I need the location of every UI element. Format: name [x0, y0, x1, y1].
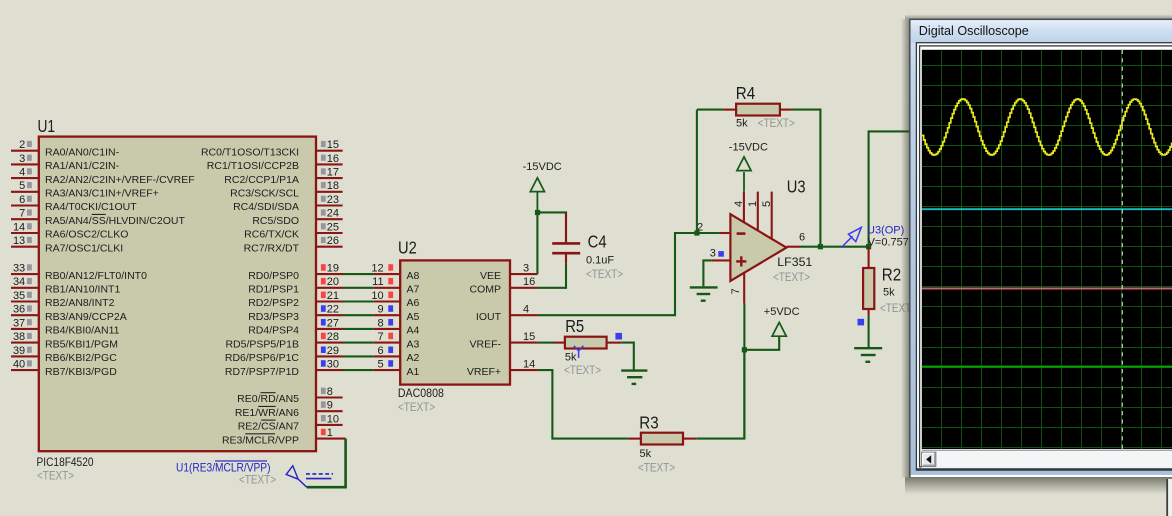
U3 pin 1 (top)	[747, 192, 759, 231]
U1 pin 20 (RD1/PSP1)	[248, 276, 343, 295]
svg-text:24: 24	[327, 208, 339, 220]
C4 property <TEXT>	[586, 267, 623, 281]
U1 pin 36 (RB3/AN9/CCP2A)	[11, 304, 127, 323]
svg-text:14: 14	[523, 358, 535, 370]
R5 value 5k	[565, 352, 577, 364]
R4 property <TEXT>	[758, 116, 795, 130]
svg-text:RC3/SCK/SCL: RC3/SCK/SCL	[230, 188, 299, 200]
svg-text:RB5/KBI1/PGM: RB5/KBI1/PGM	[45, 338, 118, 350]
wire R4 right to output	[792, 110, 821, 247]
svg-text:RA3/AN3/C1IN+/VREF+: RA3/AN3/C1IN+/VREF+	[45, 188, 159, 200]
node junction R2/scope	[866, 244, 871, 249]
background window edge bottom-right	[1167, 479, 1172, 516]
svg-text:U3(OP): U3(OP)	[867, 225, 904, 237]
U2 pin 4 (IOUT)	[476, 303, 538, 323]
svg-text:-15VDC: -15VDC	[523, 161, 562, 173]
svg-text:A6: A6	[407, 297, 420, 309]
U1 pin 23 (RC4/SDI/SDA)	[233, 194, 343, 213]
svg-text:RE3/MCLR/VPP: RE3/MCLR/VPP	[222, 434, 299, 446]
svg-text:9: 9	[327, 400, 333, 412]
U1 pin 16 (RC1/T1OSI/CCP2B)	[207, 153, 343, 172]
node junction at pin 2	[694, 230, 699, 235]
voltage probe mark at R5	[574, 346, 584, 358]
ground (op-amp pin 3)	[690, 287, 718, 300]
wire U1 pin 30 to U2 pin 5	[343, 369, 374, 371]
svg-text:5k: 5k	[883, 287, 895, 299]
svg-text:U2: U2	[398, 237, 417, 257]
svg-text:RB0/AN12/FLT0/INT0: RB0/AN12/FLT0/INT0	[45, 270, 147, 282]
window bottom white edge	[911, 475, 1172, 477]
svg-text:26: 26	[327, 235, 339, 247]
ground (R2)	[854, 348, 882, 362]
svg-text:33: 33	[13, 263, 25, 275]
ground (R5)	[621, 371, 647, 384]
svg-text:<TEXT>: <TEXT>	[398, 400, 435, 414]
U3 pin 7 (bottom)	[730, 273, 744, 304]
oscilloscope window frame	[910, 19, 1172, 476]
svg-text:RC7/RX/DT: RC7/RX/DT	[244, 242, 300, 254]
terminal property <TEXT>	[239, 472, 276, 486]
svg-text:11: 11	[372, 276, 383, 288]
svg-text:30: 30	[327, 359, 339, 371]
wire pin3 to ground	[703, 260, 711, 286]
U2 pin 12 stub	[371, 263, 400, 275]
svg-text:RD0/PSP0: RD0/PSP0	[248, 270, 299, 282]
svg-text:6: 6	[19, 194, 25, 206]
U3 pin 5 (top)	[761, 192, 773, 239]
window drop shadow top	[905, 14, 1172, 19]
resistor R5	[554, 337, 622, 349]
U1 pin 10 (RE2/CS/AN7)	[238, 413, 343, 432]
svg-text:5k: 5k	[565, 352, 577, 364]
svg-text:1: 1	[327, 427, 333, 439]
node junction feedback	[818, 244, 823, 249]
wire U1 pin 22 to U2 pin 9	[343, 314, 374, 316]
svg-text:5: 5	[377, 359, 383, 371]
resistor R2	[863, 268, 874, 316]
logic state square on R5 wire	[615, 333, 622, 340]
svg-text:RB7/KBI3/PGD: RB7/KBI3/PGD	[45, 366, 117, 378]
R4 designator	[736, 83, 756, 103]
U1 pin 33 (RB0/AN12/FLT0/INT0)	[11, 263, 147, 282]
svg-text:36: 36	[13, 304, 25, 316]
svg-text:23: 23	[327, 194, 339, 206]
svg-text:0.1uF: 0.1uF	[586, 255, 614, 267]
R3 value 5k	[640, 448, 652, 460]
svg-text:15: 15	[327, 139, 339, 151]
default terminal (RE3/MCLR/VPP net)	[286, 466, 333, 487]
svg-text:10: 10	[371, 290, 383, 302]
logic state square at pin 3	[718, 251, 724, 257]
wire U1 pin 20 to U2 pin 11	[343, 287, 374, 289]
svg-text:COMP: COMP	[470, 284, 502, 296]
svg-text:19: 19	[327, 263, 339, 275]
svg-text:U3: U3	[787, 176, 806, 196]
svg-text:12: 12	[371, 263, 383, 275]
svg-text:<TEXT>: <TEXT>	[773, 270, 810, 284]
U2 pin 16 (COMP)	[470, 276, 538, 296]
resistor R3	[628, 433, 697, 445]
wire U1 pin 19 to U2 pin 12	[343, 273, 374, 275]
U1 pin 18 (RC3/SCK/SCL)	[230, 180, 342, 199]
svg-text:RB1/AN10/INT1: RB1/AN10/INT1	[45, 284, 120, 296]
svg-text:34: 34	[13, 276, 25, 288]
svg-text:RA6/OSC2/CLKO: RA6/OSC2/CLKO	[45, 229, 128, 241]
svg-text:RB6/KBI2/PGC: RB6/KBI2/PGC	[45, 352, 117, 364]
svg-text:VEE: VEE	[480, 270, 501, 282]
voltage probe U3(OP)	[841, 227, 861, 247]
U2 pin 6 stub	[374, 345, 401, 357]
svg-text:RA1/AN1/C2IN-: RA1/AN1/C2IN-	[45, 160, 120, 172]
svg-text:RE1/WR/AN6: RE1/WR/AN6	[235, 407, 299, 419]
svg-text:27: 27	[327, 317, 339, 329]
scope channel A sine trace	[922, 99, 1172, 155]
U1 pin 21 (RD2/PSP2)	[248, 290, 343, 309]
svg-text:37: 37	[13, 317, 25, 329]
svg-text:RC4/SDI/SDA: RC4/SDI/SDA	[233, 201, 299, 213]
wire C4 bottom to COMP	[538, 264, 566, 288]
svg-text:16: 16	[327, 153, 339, 165]
U3 property <TEXT>	[773, 270, 810, 284]
op-amp U3 body	[730, 214, 786, 281]
svg-text:4: 4	[523, 303, 529, 315]
scope channel C trace (pink)	[922, 288, 1172, 290]
oscilloscope screen	[922, 50, 1172, 449]
R2 value 5k	[883, 287, 895, 299]
svg-text:A8: A8	[407, 270, 420, 282]
svg-text:28: 28	[327, 331, 339, 343]
svg-text:RC6/TX/CK: RC6/TX/CK	[244, 229, 299, 241]
U2 property <TEXT>	[398, 400, 435, 414]
U1 pin 35 (RB2/AN8/INT2)	[11, 290, 115, 309]
U1 pin 27 (RD4/PSP4)	[248, 317, 343, 336]
svg-text:RA7/OSC1/CLKI: RA7/OSC1/CLKI	[45, 242, 123, 254]
svg-text:5k: 5k	[736, 118, 748, 130]
U1 pin 9 (RE1/WR/AN6)	[235, 400, 343, 419]
wire U1 pin 27 to U2 pin 8	[343, 328, 374, 330]
U1 pin 6 (RA4/T0CKI/C1OUT)	[11, 194, 137, 213]
svg-text:7: 7	[19, 208, 25, 220]
svg-text:A5: A5	[407, 311, 420, 323]
svg-text:13: 13	[13, 235, 25, 247]
svg-text:RA4/T0CKI/C1OUT: RA4/T0CKI/C1OUT	[45, 201, 137, 213]
U2 pin label A6	[407, 297, 420, 309]
svg-text:6: 6	[377, 345, 383, 357]
wire pin 7 down	[743, 304, 745, 439]
svg-text:A1: A1	[407, 366, 420, 378]
U1 pin 5 (RA3/AN3/C1IN+/VREF+)	[11, 180, 159, 199]
svg-text:DAC0808: DAC0808	[398, 386, 444, 400]
oscilloscope title bar	[911, 21, 1172, 43]
svg-text:4: 4	[19, 167, 25, 179]
U1 pin 37 (RB4/KBI0/AN11)	[11, 317, 120, 336]
wire output node	[800, 246, 869, 248]
svg-text:RD7/PSP7/P1D: RD7/PSP7/P1D	[225, 366, 300, 378]
wire node to C4 top	[537, 212, 566, 242]
op-amp plus symbol	[736, 256, 746, 266]
svg-text:9: 9	[377, 304, 383, 316]
svg-text:3: 3	[19, 153, 25, 165]
wire IOUT to op-amp pin 2	[538, 233, 720, 315]
R5 property <TEXT>	[564, 363, 601, 377]
R5 designator	[565, 316, 584, 336]
wire U1 pin 28 to U2 pin 7	[343, 342, 374, 344]
svg-text:RB3/AN9/CCP2A: RB3/AN9/CCP2A	[45, 311, 127, 323]
svg-text:U1: U1	[38, 116, 56, 136]
svg-text:RB2/AN8/INT2: RB2/AN8/INT2	[45, 297, 115, 309]
IC U1 PIC18F4520 body	[39, 137, 316, 452]
IC U2 DAC0808 body	[400, 260, 510, 384]
U3 value LF351	[777, 255, 812, 269]
svg-text:RE2/CS/AN7: RE2/CS/AN7	[238, 421, 299, 433]
R2 property <TEXT>	[880, 301, 917, 315]
svg-text:8: 8	[327, 386, 333, 398]
wire U1 pin 1 to terminal	[307, 439, 346, 488]
net label U1(RE3/MCLR/VPP)	[176, 461, 271, 474]
U2 pin label A1	[407, 366, 420, 378]
scope grid	[922, 50, 1172, 449]
svg-text:39: 39	[13, 345, 25, 357]
svg-text:RD2/PSP2: RD2/PSP2	[248, 297, 299, 309]
svg-text:RC5/SDO: RC5/SDO	[252, 215, 299, 227]
U2 pin 5 stub	[374, 359, 401, 371]
svg-text:R5: R5	[565, 316, 584, 336]
R2 top lead	[868, 247, 870, 268]
svg-text:RD6/PSP6/P1C: RD6/PSP6/P1C	[225, 352, 300, 364]
wire R4 left	[697, 109, 724, 111]
U3 pin 6 output stub	[786, 246, 800, 248]
label -15VDC (op-amp)	[729, 142, 768, 154]
svg-text:5: 5	[761, 201, 773, 207]
U1 pin 40 (RB7/KBI3/PGD)	[11, 359, 117, 378]
svg-text:10: 10	[327, 413, 339, 425]
wire U1 pin 21 to U2 pin 10	[343, 300, 374, 302]
label -15VDC (left)	[523, 161, 562, 173]
logic state square at R2	[858, 319, 865, 326]
U2 pin label A4	[407, 325, 420, 337]
svg-text:38: 38	[13, 331, 25, 343]
U1 pin 34 (RB1/AN10/INT1)	[11, 276, 120, 295]
scope scrollbar track	[922, 449, 1172, 467]
oscilloscope bezel	[916, 43, 1172, 470]
svg-text:VREF+: VREF+	[467, 366, 501, 378]
wire R2 to ground	[868, 316, 870, 347]
svg-text:R2: R2	[882, 265, 901, 285]
svg-text:<TEXT>: <TEXT>	[239, 472, 276, 486]
svg-text:20: 20	[327, 276, 339, 288]
label +5VDC	[764, 306, 800, 318]
svg-text:RB4/KBI0/AN11: RB4/KBI0/AN11	[45, 325, 120, 337]
oscilloscope title	[919, 23, 1029, 38]
svg-text:4: 4	[733, 201, 745, 207]
U1 pin 4 (RA2/AN2/C2IN+/VREF-/CVREF)	[11, 167, 195, 186]
wire VEE to -15VDC node	[536, 212, 538, 274]
U1 pin 26 (RC7/RX/DT)	[244, 235, 343, 254]
U2 value DAC0808	[398, 386, 444, 400]
svg-text:A3: A3	[407, 338, 420, 350]
U3 pin 6 label	[799, 231, 805, 243]
wire U1 pin 29 to U2 pin 6	[343, 355, 374, 357]
svg-text:<TEXT>: <TEXT>	[586, 267, 623, 281]
svg-text:29: 29	[327, 345, 339, 357]
scope channel D trace (green)	[922, 366, 1172, 368]
U2 pin 7 stub	[374, 331, 401, 343]
wire output to oscilloscope	[869, 131, 912, 246]
svg-text:RD4/PSP4: RD4/PSP4	[248, 325, 299, 337]
svg-text:RA5/AN4/SS/HLVDIN/C2OUT: RA5/AN4/SS/HLVDIN/C2OUT	[45, 215, 185, 227]
R2 designator	[882, 265, 901, 285]
svg-text:VREF-: VREF-	[470, 338, 502, 350]
U2 designator label	[398, 237, 417, 257]
svg-text:RC0/T1OSO/T13CKI: RC0/T1OSO/T13CKI	[201, 146, 299, 158]
svg-text:35: 35	[13, 290, 25, 302]
svg-text:RA2/AN2/C2IN+/VREF-/CVREF: RA2/AN2/C2IN+/VREF-/CVREF	[45, 174, 195, 186]
svg-text:RC2/CCP1/P1A: RC2/CCP1/P1A	[224, 174, 299, 186]
C4 designator	[588, 231, 607, 251]
svg-text:PIC18F4520: PIC18F4520	[37, 455, 94, 469]
svg-text:IOUT: IOUT	[476, 311, 502, 323]
svg-text:15: 15	[523, 331, 535, 343]
svg-text:6: 6	[799, 231, 805, 243]
probe value V=0.7574	[868, 236, 915, 248]
svg-text:RD5/PSP5/P1B: RD5/PSP5/P1B	[225, 338, 299, 350]
U2 pin 9 stub	[374, 304, 401, 316]
svg-text:-15VDC: -15VDC	[729, 142, 768, 154]
wire op-amp pin2 node to R4	[696, 110, 698, 233]
U3 pin 2 stub	[697, 222, 730, 234]
power +5VDC	[744, 322, 786, 349]
U1 pin 30 (RD7/PSP7/P1D)	[225, 359, 343, 378]
power -15VDC (C4 node)	[530, 178, 544, 212]
U1 pin 15 (RC0/T1OSO/T13CKI)	[201, 139, 343, 158]
U2 pin 11 stub	[372, 276, 400, 288]
svg-text:A4: A4	[407, 325, 420, 337]
svg-text:<TEXT>: <TEXT>	[638, 460, 675, 474]
svg-text:R3: R3	[639, 413, 658, 433]
window drop shadow left	[901, 19, 910, 477]
svg-text:LF351: LF351	[777, 255, 812, 269]
U3 pin 3 stub	[710, 247, 731, 260]
svg-text:RD3/PSP3: RD3/PSP3	[248, 311, 299, 323]
svg-text:16: 16	[523, 276, 535, 288]
svg-text:40: 40	[13, 359, 25, 371]
svg-text:RC1/T1OSI/CCP2B: RC1/T1OSI/CCP2B	[207, 160, 299, 172]
svg-text:18: 18	[327, 180, 339, 192]
svg-text:+5VDC: +5VDC	[764, 306, 800, 318]
U1 pin 24 (RC5/SDO)	[252, 208, 342, 227]
R4 value 5k	[736, 118, 748, 130]
svg-text:5: 5	[19, 180, 25, 192]
svg-text:7: 7	[730, 288, 742, 294]
node junction at C4 top	[535, 210, 540, 215]
U1 pin 17 (RC2/CCP1/P1A)	[224, 167, 342, 186]
U2 pin label A2	[407, 352, 420, 364]
R3 designator	[639, 413, 658, 433]
U2 pin 3 (VEE)	[480, 262, 538, 282]
window bottom border	[916, 468, 1172, 470]
svg-text:5k: 5k	[640, 448, 652, 460]
U2 pin label A3	[407, 338, 420, 350]
svg-text:RD1/PSP1: RD1/PSP1	[248, 284, 299, 296]
svg-text:<TEXT>: <TEXT>	[758, 116, 795, 130]
node junction +5VDC	[742, 347, 747, 352]
U2 pin label A8	[407, 270, 420, 282]
svg-text:C4: C4	[588, 231, 607, 251]
svg-text:14: 14	[13, 221, 25, 233]
op-amp minus symbol	[737, 232, 746, 235]
scope scrollbar left button	[922, 452, 936, 466]
U1 pin 29 (RD6/PSP6/P1C)	[225, 345, 343, 364]
U1 designator label	[38, 116, 56, 136]
C4 value 0.1uF	[586, 255, 614, 267]
U1 pin 13 (RA7/OSC1/CLKI)	[11, 235, 123, 254]
svg-text:A2: A2	[407, 352, 420, 364]
U1 pin 28 (RD5/PSP5/P1B)	[225, 331, 343, 350]
svg-text:3: 3	[710, 247, 716, 259]
U2 pin 8 stub	[374, 317, 401, 329]
wire R3 to +5VDC node	[696, 350, 744, 439]
U1 pin 7 (RA5/AN4/SS/HLVDIN/C2OUT)	[11, 208, 185, 227]
wire R5 to ground	[621, 343, 634, 370]
resistor R4	[724, 104, 792, 116]
svg-text:<TEXT>: <TEXT>	[37, 469, 74, 483]
scope cursor dashed line	[1121, 50, 1123, 449]
U1 pin 19 (RD0/PSP0)	[248, 263, 343, 282]
svg-text:Digital Oscilloscope: Digital Oscilloscope	[919, 23, 1029, 38]
U1 pin 38 (RB5/KBI1/PGM)	[11, 331, 118, 350]
U1 pin 25 (RC6/TX/CK)	[244, 221, 342, 240]
U1 pin 2 (RA0/AN0/C1IN-)	[11, 139, 120, 158]
U2 pin label A7	[407, 284, 420, 296]
U1 pin 39 (RB6/KBI2/PGC)	[11, 345, 117, 364]
U2 pin label A5	[407, 311, 420, 323]
capacitor C4	[552, 212, 580, 263]
U1 pin 8 (RE0/RD/AN5)	[237, 386, 342, 405]
R3 property <TEXT>	[638, 460, 675, 474]
svg-text:3: 3	[523, 262, 529, 274]
U2 pin 15 (VREF-)	[470, 331, 538, 351]
wire VREF+ down	[538, 370, 628, 439]
scope channel B trace (cyan)	[922, 208, 1172, 210]
window drop shadow bottom	[905, 477, 1172, 494]
svg-text:17: 17	[327, 167, 339, 179]
svg-text:22: 22	[327, 304, 339, 316]
svg-text:R4: R4	[736, 83, 756, 103]
U2 pin 10 stub	[371, 290, 400, 302]
svg-text:25: 25	[327, 221, 339, 233]
svg-text:7: 7	[377, 331, 383, 343]
svg-text:8: 8	[377, 317, 383, 329]
U1 property <TEXT>	[37, 469, 74, 483]
U1 pin 14 (RA6/OSC2/CLKO)	[11, 221, 128, 240]
svg-text:<TEXT>: <TEXT>	[564, 363, 601, 377]
U3 pin 4 (top)	[733, 192, 745, 223]
svg-text:RE0/RD/AN5: RE0/RD/AN5	[237, 393, 299, 405]
svg-text:21: 21	[327, 290, 339, 302]
U1 pin 3 (RA1/AN1/C2IN-)	[11, 153, 120, 172]
U1 value PIC18F4520	[37, 455, 94, 469]
power -15VDC (op-amp)	[737, 157, 751, 192]
U1 pin 1 (RE3/MCLR/VPP)	[222, 427, 346, 446]
svg-text:2: 2	[19, 139, 25, 151]
svg-text:RA0/AN0/C1IN-: RA0/AN0/C1IN-	[45, 146, 120, 158]
svg-text:A7: A7	[407, 284, 420, 296]
svg-text:1: 1	[747, 201, 759, 207]
probe label U3(OP)	[867, 225, 904, 237]
wire VREF- to R5	[538, 342, 554, 344]
U1 pin 22 (RD3/PSP3)	[248, 304, 343, 323]
U2 pin 14 (VREF+)	[467, 358, 538, 378]
